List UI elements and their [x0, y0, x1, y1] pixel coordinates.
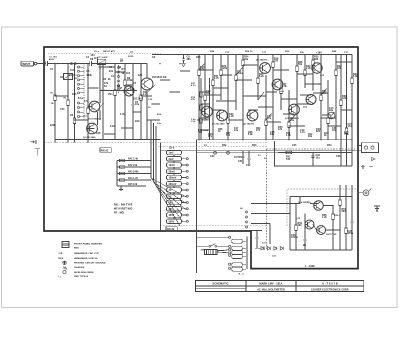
- transistor Q16: [317, 226, 326, 235]
- wire: [182, 202, 187, 204]
- wire: [289, 114, 296, 122]
- switch contact S2-1: [186, 158, 188, 160]
- wire: [266, 113, 272, 120]
- svg-text:3mV: 3mV: [169, 159, 175, 161]
- svg-text:R41 2.4k: R41 2.4k: [128, 158, 139, 161]
- legend row UNMARKED CAP. P.3F: [59, 252, 100, 255]
- svg-text:1mV: 1mV: [169, 153, 175, 155]
- svg-text:560: 560: [226, 135, 231, 137]
- wire: [321, 117, 336, 119]
- junction: [54, 95, 55, 96]
- wire: [180, 70, 190, 72]
- svg-text:C/R: C/R: [59, 253, 63, 255]
- junction: [227, 139, 228, 140]
- label R10: [143, 92, 148, 96]
- label R28: [298, 62, 303, 66]
- wire: [248, 109, 258, 111]
- label R22: [222, 66, 228, 70]
- transistor Q3: [141, 78, 153, 90]
- svg-text:12k: 12k: [278, 129, 283, 131]
- wire ladder bus vertical: [160, 142, 162, 231]
- wire: [242, 247, 246, 249]
- wire: [205, 94, 221, 96]
- svg-text:330: 330: [337, 68, 342, 70]
- svg-text:10u: 10u: [234, 130, 239, 132]
- wire bundle: [155, 152, 157, 186]
- wire: [328, 125, 341, 127]
- svg-text:104: 104: [91, 54, 96, 57]
- svg-text:WF HURST W/G: WF HURST W/G: [114, 209, 133, 211]
- transistor Q11: [289, 104, 300, 115]
- wire: [173, 205, 175, 207]
- svg-text:FRONT PANEL MARKING: FRONT PANEL MARKING: [74, 242, 103, 245]
- junction: [159, 63, 160, 64]
- svg-text:R61 - R69 TYPE: R61 - R69 TYPE: [114, 205, 133, 207]
- label R58: [322, 215, 327, 219]
- junction: [339, 229, 340, 230]
- svg-text:1.2k: 1.2k: [322, 217, 327, 219]
- shield box dashed top edge: [48, 53, 162, 55]
- switch S3 contacts: [229, 236, 231, 269]
- wire: [182, 214, 187, 216]
- chassis stud: [35, 149, 40, 156]
- wire: [201, 129, 210, 131]
- svg-text:120k: 120k: [342, 98, 348, 100]
- label C12: [267, 116, 272, 120]
- svg-text:300mV: 300mV: [169, 184, 177, 186]
- output jack J2: [358, 189, 372, 196]
- wire Q2 collector: [96, 112, 98, 125]
- wire: [258, 92, 264, 100]
- svg-text:150: 150: [274, 61, 279, 63]
- wire top rail c: [92, 63, 148, 65]
- wire bottom rail right: [196, 139, 352, 141]
- wire: [173, 161, 175, 163]
- label R34: [353, 73, 358, 78]
- junction: [332, 205, 333, 206]
- wire: [212, 109, 222, 111]
- resistor box R51 range 300V: [167, 219, 182, 223]
- wire: [358, 145, 362, 147]
- wire +16V rail: [152, 54, 352, 56]
- svg-text:C13: C13: [225, 52, 230, 54]
- svg-text:1M: 1M: [90, 59, 93, 61]
- wire fan: [151, 178, 186, 197]
- wire: [217, 251, 229, 254]
- svg-text:C3 3-20P: C3 3-20P: [98, 57, 108, 59]
- label R42: [308, 133, 313, 138]
- svg-text:RED: RED: [74, 248, 79, 250]
- wire: [201, 103, 210, 105]
- capacitor C1: [46, 61, 48, 66]
- ground: [86, 140, 89, 143]
- wire: [266, 91, 277, 93]
- wire B+ rail: [275, 165, 353, 167]
- svg-text:220k: 220k: [50, 125, 56, 127]
- wire: [242, 240, 246, 242]
- wire: [146, 90, 148, 140]
- svg-text:4.7k: 4.7k: [191, 84, 196, 87]
- svg-text:R42 24k: R42 24k: [128, 164, 138, 167]
- rotary switch S1-a contacts: [78, 65, 85, 121]
- svg-text:400V: 400V: [49, 58, 55, 61]
- svg-text:C32: C32: [246, 165, 251, 167]
- resistor R23: [220, 55, 222, 100]
- wire: [88, 128, 95, 130]
- legend row CHASSIS: [74, 266, 85, 269]
- wire: [336, 61, 352, 63]
- wire: [173, 155, 175, 157]
- wire: [160, 79, 170, 81]
- wire: [305, 83, 321, 85]
- svg-text:CHASSIS: CHASSIS: [74, 266, 85, 269]
- label R8: [117, 86, 122, 90]
- wire: [242, 264, 246, 266]
- wire: [273, 69, 289, 71]
- svg-text:900k: 900k: [87, 75, 93, 77]
- label C26: [348, 231, 354, 235]
- wire fan: [154, 182, 186, 203]
- wire: [242, 256, 246, 258]
- junction: [227, 54, 228, 55]
- svg-text:10u: 10u: [135, 104, 140, 106]
- wire: [115, 71, 125, 73]
- svg-text:+16V: +16V: [316, 52, 322, 54]
- svg-text:8.2k: 8.2k: [259, 76, 264, 78]
- label R32: [337, 66, 342, 70]
- svg-text:R43 240k: R43 240k: [128, 171, 139, 174]
- switch contact S2-8: [186, 202, 188, 204]
- note text: [114, 205, 133, 215]
- svg-text:39k: 39k: [308, 136, 313, 138]
- transistor Q4: [124, 86, 134, 96]
- wire: [155, 126, 157, 152]
- svg-text:47u: 47u: [348, 125, 353, 128]
- wire to Q1 base: [88, 106, 89, 108]
- resistor: [200, 92, 202, 97]
- junction: [335, 54, 336, 55]
- resistor R41: [117, 158, 151, 162]
- wire: [173, 186, 175, 188]
- legend row UNMARKED 1/6W 5%: [59, 257, 98, 260]
- capacitor C23: [255, 230, 258, 248]
- label R38: [248, 132, 253, 136]
- switch contact S2-5: [186, 183, 188, 185]
- svg-text:C21: C21: [262, 243, 266, 245]
- wire: [99, 66, 116, 68]
- wire fan: [156, 186, 186, 209]
- svg-text:AC MILLIVOLTMETER: AC MILLIVOLTMETER: [257, 288, 285, 291]
- svg-text:820: 820: [316, 131, 321, 133]
- svg-text:OUTPUT: OUTPUT: [234, 157, 244, 159]
- resistor box R47 range 3V: [167, 194, 182, 198]
- svg-text:INPUT: INPUT: [22, 62, 31, 66]
- junction: [67, 63, 68, 64]
- svg-text:R19: R19: [157, 114, 162, 116]
- junction: [212, 54, 213, 55]
- wire: [148, 85, 155, 92]
- wire: [182, 189, 187, 191]
- resistor box R48 range 10V: [167, 200, 182, 204]
- wire: [217, 250, 224, 252]
- svg-text:D1: D1: [258, 155, 261, 157]
- junction: [114, 63, 115, 64]
- junction: [265, 119, 266, 120]
- wire: [332, 206, 334, 211]
- junction: [299, 196, 300, 197]
- svg-text:Q2 2SC1845: Q2 2SC1845: [83, 136, 96, 139]
- svg-text:R24: R24: [210, 50, 215, 53]
- legend row SHIELDING WIRE: [74, 272, 94, 274]
- resistor R10: [140, 64, 142, 140]
- wire: [289, 197, 291, 251]
- svg-text:4.7u: 4.7u: [300, 131, 305, 134]
- wire ladder left bus: [116, 161, 118, 187]
- junction: [312, 89, 313, 90]
- svg-text:Q8 2SA970: Q8 2SA970: [243, 123, 255, 126]
- wire: [182, 220, 187, 222]
- wire: [247, 237, 249, 270]
- svg-text:470u: 470u: [348, 232, 354, 235]
- trimmer C3b: [98, 57, 108, 65]
- wire: [251, 230, 262, 232]
- label C31: [238, 161, 251, 167]
- switch contact S2-10: [186, 214, 188, 216]
- junction: [56, 63, 57, 64]
- resistor box R55: [232, 267, 243, 271]
- wire: [133, 111, 141, 113]
- wire: [182, 177, 187, 179]
- shield dashed segment low: [160, 224, 267, 226]
- power shield dashed box: [287, 189, 356, 226]
- junction: [351, 139, 352, 140]
- switch contact S2-9: [186, 208, 188, 210]
- wire: [125, 84, 133, 86]
- resistor R2: [67, 64, 69, 140]
- label R33: [342, 96, 348, 100]
- transistor Q1: [89, 101, 100, 112]
- wire: [199, 63, 205, 70]
- label C25: [291, 235, 299, 239]
- junction: [74, 119, 75, 120]
- wire: [251, 213, 290, 215]
- wire: [150, 120, 152, 152]
- wire mid link: [100, 90, 137, 92]
- resistor R27: [257, 55, 259, 100]
- junction: [340, 150, 341, 151]
- resistor box R49 range 30V: [167, 207, 182, 211]
- svg-text:100: 100: [298, 225, 303, 227]
- resistor R20: [198, 55, 200, 140]
- legend: front panel marking icon: [62, 241, 69, 247]
- junction: [87, 139, 88, 140]
- switch contact S2-7: [186, 195, 188, 197]
- wire B+ feed: [274, 142, 276, 166]
- svg-text:R15: R15: [130, 89, 135, 91]
- wire: [173, 192, 175, 194]
- resistor R32: [296, 55, 298, 140]
- wire: [173, 173, 175, 175]
- svg-text:RF : MGI: RF : MGI: [114, 213, 125, 215]
- svg-text:90k: 90k: [109, 71, 114, 73]
- transistor Q14: [314, 201, 324, 211]
- svg-text:UNMARKED 1/6W 5%: UNMARKED 1/6W 5%: [74, 257, 98, 260]
- meter connector M1: [362, 143, 379, 153]
- resistor R44: [117, 177, 151, 181]
- junction: [124, 63, 125, 64]
- wire: [68, 74, 75, 76]
- resistor R8: [114, 64, 116, 140]
- label R40: [278, 126, 283, 131]
- resistor R39: [345, 55, 347, 166]
- svg-text:560: 560: [342, 211, 347, 213]
- wire: [313, 92, 328, 94]
- label R20: [200, 67, 205, 71]
- title block: [196, 281, 364, 292]
- svg-text:R19: R19: [135, 121, 140, 123]
- resistor R3: [73, 64, 75, 140]
- wire top rail a: [37, 63, 46, 65]
- junction: [204, 119, 205, 120]
- svg-text:680: 680: [314, 59, 319, 61]
- junction: [87, 63, 88, 64]
- resistor box R50: [232, 239, 243, 243]
- resistor R40: [351, 55, 353, 166]
- legend row FRONT PANEL MARKING: [74, 242, 103, 245]
- legend row RED: [74, 248, 79, 250]
- ground: [182, 64, 186, 67]
- label R43: [316, 128, 321, 133]
- label C14: [329, 107, 334, 112]
- junction: [265, 139, 266, 140]
- label R36: [218, 129, 223, 133]
- resistor R24: [227, 55, 229, 140]
- input connector J1: [21, 61, 37, 66]
- svg-text:INPUT ATT: INPUT ATT: [103, 50, 116, 53]
- svg-text:C10: C10: [148, 99, 153, 101]
- svg-text:220: 220: [138, 75, 143, 77]
- svg-text:4.7k: 4.7k: [120, 113, 125, 116]
- capacitor C30: [311, 153, 320, 167]
- schematic border frame: [44, 47, 358, 269]
- wire fan: [156, 186, 180, 226]
- chassis connection arrow: [31, 140, 37, 144]
- svg-text:C31: C31: [238, 161, 243, 163]
- switch contact S2-6: [186, 189, 188, 191]
- ground: [66, 140, 69, 143]
- svg-text:C22: C22: [272, 256, 276, 258]
- wire: [290, 249, 352, 251]
- label R26: [274, 59, 279, 63]
- svg-text:R26 1k: R26 1k: [245, 51, 253, 53]
- wire: [173, 211, 175, 213]
- resistor box R45 range 300mV: [167, 182, 182, 186]
- svg-text:22k: 22k: [300, 52, 305, 54]
- label C17: [234, 128, 239, 132]
- wire fan: [151, 178, 183, 216]
- label C11: [237, 71, 243, 75]
- svg-text:10u: 10u: [157, 123, 162, 125]
- wire: [209, 78, 211, 140]
- label C20: [332, 128, 337, 132]
- svg-text:7.5k: 7.5k: [344, 134, 349, 136]
- label C15: [348, 124, 353, 128]
- resistor R33: [304, 55, 306, 88]
- svg-text:T - 1: T - 1: [239, 274, 245, 276]
- label C18: [270, 132, 275, 136]
- wire: [182, 195, 187, 197]
- resistor R59: [295, 204, 297, 251]
- wire: [236, 66, 244, 75]
- wire: [310, 203, 319, 205]
- wire: [228, 119, 243, 121]
- svg-text:10u: 10u: [332, 130, 337, 132]
- resistor R36: [327, 80, 329, 140]
- wire: [147, 119, 161, 121]
- label R27: [282, 84, 287, 88]
- wire: [170, 91, 180, 93]
- wire: [146, 64, 148, 78]
- wire bundle: [150, 152, 152, 178]
- svg-text:47p: 47p: [208, 135, 213, 138]
- wire feedback vertical: [196, 140, 198, 273]
- resistor R26: [242, 55, 244, 140]
- label R37: [226, 133, 231, 137]
- resistor R31: [288, 90, 290, 140]
- wire: [55, 95, 68, 97]
- wire: [251, 223, 270, 225]
- resistor box R53: [232, 255, 243, 259]
- wire: [196, 231, 198, 246]
- svg-text:1k5: 1k5: [126, 73, 131, 75]
- wire: [152, 103, 160, 105]
- resistor box R46 range 1V: [167, 188, 182, 192]
- wire: [255, 247, 261, 249]
- svg-text:C19: C19: [110, 126, 115, 128]
- junction: [274, 165, 275, 166]
- junction: [313, 54, 314, 55]
- wire: [213, 87, 228, 89]
- transistor Q8: [247, 110, 258, 121]
- wire: [221, 74, 232, 76]
- wire: [281, 98, 297, 100]
- junction: [140, 63, 141, 64]
- junction: [151, 103, 152, 104]
- trimmer C3: [64, 74, 73, 80]
- wire: [199, 69, 213, 71]
- transistor Q12: [306, 95, 316, 105]
- transistor Q6: [202, 106, 213, 117]
- wire: [216, 100, 236, 102]
- transformer T-1: [205, 249, 217, 254]
- svg-text:380: 380: [187, 59, 192, 61]
- svg-text:5.6k: 5.6k: [353, 76, 358, 78]
- svg-text:R35: R35: [72, 94, 77, 96]
- resistor R28: [265, 75, 267, 140]
- switch S3 lever: [209, 244, 217, 247]
- wire: [321, 88, 327, 95]
- svg-text:( ): ( ): [59, 276, 62, 278]
- transistor Q7: [217, 110, 228, 121]
- wire bottom rail center: [110, 139, 160, 141]
- meter terminal marks: [361, 158, 375, 169]
- svg-text:S1-a: S1-a: [94, 51, 100, 53]
- svg-text:C17: C17: [344, 52, 349, 54]
- wire: [243, 64, 258, 66]
- label R57: [342, 209, 347, 213]
- svg-text:15k: 15k: [322, 93, 327, 95]
- svg-text:1000u: 1000u: [291, 237, 299, 239]
